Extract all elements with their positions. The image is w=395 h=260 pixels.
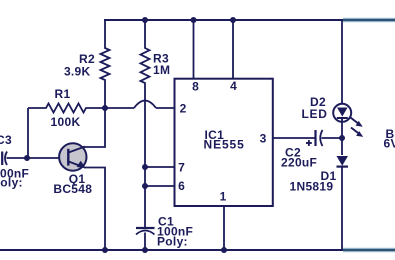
- svg-text:1N5819: 1N5819: [290, 180, 334, 194]
- svg-text:LED: LED: [302, 107, 328, 121]
- capacitor C2: [306, 130, 342, 146]
- svg-text:220uF: 220uF: [281, 156, 317, 170]
- node R1-R2-pin2-collector: [102, 105, 108, 111]
- node top rail / R3: [142, 17, 148, 23]
- node pin6 / R3: [142, 183, 148, 189]
- svg-text:BC548: BC548: [53, 182, 92, 196]
- svg-text:1M: 1M: [153, 63, 170, 77]
- svg-text:R1: R1: [55, 87, 71, 101]
- node emitter / bottom rail: [102, 247, 108, 253]
- wire R1 left to base node: [27, 108, 29, 158]
- node top rail / pin4: [230, 17, 236, 23]
- svg-text:3: 3: [260, 132, 267, 146]
- transistor Q1: [59, 143, 86, 170]
- LED D2: [333, 104, 351, 155]
- LED light arrows: [351, 118, 364, 137]
- node pin1 / bottom rail: [221, 247, 227, 253]
- node top rail / pin8: [191, 17, 197, 23]
- wire pin 4 to rail: [232, 20, 234, 79]
- svg-text:6: 6: [178, 179, 185, 193]
- svg-text:6V: 6V: [384, 137, 395, 151]
- node pin7 / R3: [142, 164, 148, 170]
- svg-text:7: 7: [178, 161, 185, 175]
- capacitor C1: [136, 228, 155, 250]
- svg-text:Poly:: Poly:: [157, 235, 188, 249]
- wire pin 1 to bottom rail: [223, 206, 225, 250]
- svg-text:8: 8: [192, 80, 199, 94]
- resistor R2: [101, 19, 110, 108]
- svg-text:3.9K: 3.9K: [64, 65, 91, 79]
- wire pin 3 to C2: [273, 137, 315, 139]
- svg-text:1: 1: [220, 190, 227, 204]
- svg-text:4: 4: [230, 79, 237, 93]
- resistor R1: [28, 104, 105, 113]
- wire bottom rail to battery (light): [343, 248, 395, 253]
- wire R3 bottom to C1: [144, 108, 146, 228]
- wire emitter of Q1 to bottom rail: [84, 168, 105, 251]
- wire C3 to base of Q1: [7, 157, 60, 159]
- wire pin2 with hop over R3: [105, 107, 134, 109]
- capacitor C3: [2, 152, 7, 166]
- wire pin 7: [145, 166, 175, 168]
- wire top rail (V+): [104, 19, 343, 21]
- op-amp/timer IC1 NE555 box: [175, 79, 273, 206]
- node C1 / bottom rail: [142, 247, 148, 253]
- wire bottom rail (0V): [0, 249, 343, 251]
- wire collector of Q1 to node: [84, 108, 105, 147]
- svg-text:Poly:: Poly:: [0, 176, 23, 190]
- resistor R3: [141, 19, 150, 108]
- wire LED branch top: [341, 19, 343, 104]
- svg-text:C3: C3: [0, 133, 12, 147]
- svg-text:NE555: NE555: [204, 137, 245, 151]
- wire pin 8 to rail: [193, 20, 195, 79]
- wire pin 6: [145, 185, 175, 187]
- svg-text:2: 2: [180, 102, 187, 116]
- wire top rail to battery (light): [343, 18, 395, 23]
- diode D1: [337, 156, 349, 250]
- node C2 / LED branch: [339, 135, 345, 141]
- svg-text:100K: 100K: [51, 115, 81, 129]
- node base / R1: [24, 155, 30, 161]
